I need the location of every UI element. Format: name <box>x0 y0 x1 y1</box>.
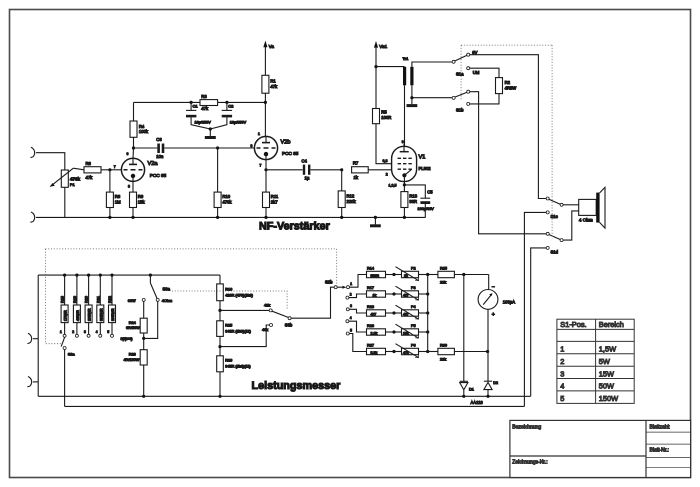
resistor R21 <box>99 274 102 277</box>
svg-text:4R5W: 4R5W <box>505 85 517 90</box>
svg-text:Blattzahl:: Blattzahl: <box>650 425 671 431</box>
svg-text:2k7: 2k7 <box>271 200 278 205</box>
svg-text:1k: 1k <box>354 175 359 180</box>
node grid V2a <box>108 168 111 171</box>
svg-text:V1: V1 <box>419 154 426 160</box>
svg-text:33R: 33R <box>409 199 417 204</box>
svg-text:PCC 85: PCC 85 <box>150 173 167 178</box>
svg-text:346R (520)(1k): 346R (520)(1k) <box>225 329 251 333</box>
svg-text:Va1: Va1 <box>379 44 387 49</box>
resistor R15 <box>428 274 438 276</box>
svg-text:Leistungsmesser: Leistungsmesser <box>252 380 342 392</box>
wire bus P outputs <box>427 275 429 352</box>
resistor R3 <box>200 100 218 106</box>
resistor R14 <box>367 271 386 277</box>
svg-text:C3: C3 <box>156 137 162 142</box>
svg-text:P3: P3 <box>411 286 416 290</box>
wire jack to P1 top <box>36 153 65 170</box>
svg-text:22k: 22k <box>440 357 446 361</box>
input jack J1 top <box>30 147 34 157</box>
svg-text:2k: 2k <box>404 274 408 278</box>
svg-text:2: 2 <box>350 292 352 296</box>
svg-text:S1-Pos.: S1-Pos. <box>560 320 586 329</box>
svg-text:40R|4R: 40R|4R <box>76 310 80 321</box>
contact 5 S2b <box>346 332 349 335</box>
svg-text:4: 4 <box>350 316 352 320</box>
svg-text:R9: R9 <box>138 194 144 199</box>
svg-text:15W: 15W <box>599 369 614 378</box>
svg-text:6,3: 6,3 <box>383 159 388 163</box>
node R10 <box>216 146 219 149</box>
svg-text:5: 5 <box>107 330 109 334</box>
wire S3a 4Ohm to R24 bottom <box>144 301 158 338</box>
trimmer P5 <box>394 331 402 333</box>
svg-text:150W: 150W <box>599 394 618 403</box>
svg-text:2: 2 <box>386 173 388 177</box>
svg-text:UM: UM <box>473 70 480 75</box>
svg-text:1: 1 <box>258 132 260 136</box>
wire R2 bottom to S1b <box>470 94 499 104</box>
svg-text:R2: R2 <box>505 80 511 85</box>
svg-text:R22: R22 <box>108 296 112 303</box>
svg-text:2: 2 <box>72 330 74 334</box>
svg-text:3: 3 <box>560 369 564 378</box>
svg-text:R17: R17 <box>367 286 374 290</box>
trimmer P4 <box>394 312 402 314</box>
svg-text:R1: R1 <box>270 78 276 83</box>
svg-text:Tr1: Tr1 <box>403 56 410 61</box>
resistor R18 <box>63 274 66 277</box>
svg-text:V2b: V2b <box>281 139 291 145</box>
input jack J3 <box>27 333 31 343</box>
capacitor C2 electrolytic <box>225 101 228 104</box>
resistor R10 <box>217 148 219 192</box>
svg-text:R21: R21 <box>96 296 100 303</box>
resistor R24 <box>143 301 145 318</box>
svg-text:R8: R8 <box>115 194 121 199</box>
svg-text:R27: R27 <box>367 344 374 348</box>
svg-text:R26: R26 <box>367 324 374 328</box>
capacitor C5 electrolytic <box>404 185 425 198</box>
svg-text:R13: R13 <box>409 193 417 198</box>
svg-text:R19: R19 <box>73 296 77 303</box>
svg-text:4k7: 4k7 <box>371 312 377 316</box>
resistor R20 <box>87 274 90 277</box>
supply arrow Va1 <box>375 47 377 108</box>
switch S1b <box>452 96 455 99</box>
svg-text:47k: 47k <box>270 84 278 89</box>
resistor R17 <box>367 291 386 297</box>
wire S1c throw to speaker <box>563 204 579 206</box>
svg-text:1: 1 <box>560 345 564 354</box>
diode D2 <box>487 352 489 382</box>
svg-text:16µ/350V: 16µ/350V <box>230 120 247 124</box>
wire S1a 6V to S1c <box>470 55 547 199</box>
svg-text:7: 7 <box>114 165 116 169</box>
tube V2b PCC85 <box>264 102 266 136</box>
switch S1d <box>546 232 549 235</box>
trimmer P2 <box>394 274 402 276</box>
svg-text:10n: 10n <box>156 154 164 159</box>
svg-text:9: 9 <box>251 144 253 148</box>
wire S1d throw to speaker bottom <box>563 211 579 240</box>
svg-text:5: 5 <box>560 394 564 403</box>
table S1-Pos / Bereich <box>557 319 634 403</box>
wire S1a Ua to R2 <box>470 68 499 77</box>
contact 4 S2b <box>346 320 349 323</box>
capacitor C4 <box>266 169 303 171</box>
svg-text:S1d: S1d <box>551 249 559 254</box>
node anode V2a / resistor R4 <box>132 148 135 158</box>
mech link dotted S3 <box>172 291 287 310</box>
svg-text:5W: 5W <box>599 357 610 366</box>
wire wiper to R6 <box>73 168 84 170</box>
svg-text:420R (470)(2k9): 420R (470)(2k9) <box>225 293 253 297</box>
svg-text:Zeichnungs-Nr.:: Zeichnungs-Nr.: <box>512 460 547 466</box>
svg-text:+: + <box>492 312 495 318</box>
svg-text:C4: C4 <box>302 158 308 163</box>
resistor R28 <box>143 338 145 349</box>
capacitor C1 electrolytic <box>190 101 193 104</box>
wire S3b common to S2b <box>291 287 334 318</box>
svg-text:−: − <box>492 284 495 290</box>
diode D1 <box>463 275 465 382</box>
svg-text:S3b: S3b <box>285 322 293 327</box>
svg-text:100k: 100k <box>139 129 149 134</box>
svg-text:S1a: S1a <box>456 72 464 77</box>
svg-text:S2a: S2a <box>68 353 76 357</box>
svg-text:47k: 47k <box>201 106 209 111</box>
wire ground bus top section <box>36 216 426 218</box>
svg-text:1,5W: 1,5W <box>599 345 616 354</box>
svg-text:17R|4R: 17R|4R <box>64 310 68 321</box>
svg-text:5,5k: 5,5k <box>371 351 378 355</box>
svg-text:R7: R7 <box>353 161 359 166</box>
svg-text:P2: P2 <box>411 267 416 271</box>
svg-text:S1c: S1c <box>551 214 558 219</box>
svg-text:4: 4 <box>96 330 98 334</box>
contact 1 S2b <box>347 286 350 289</box>
resistor R8 <box>109 170 111 192</box>
input jack J4 <box>27 376 31 386</box>
svg-text:C2: C2 <box>228 104 234 109</box>
trimmer P6 <box>394 351 402 353</box>
svg-text:R12: R12 <box>347 193 355 198</box>
svg-text:S1b: S1b <box>456 107 464 112</box>
node cathode V2b / R11 <box>264 168 267 171</box>
svg-text:R14: R14 <box>367 267 374 271</box>
svg-text:100R|4R: 100R|4R <box>88 308 92 321</box>
svg-text:22k: 22k <box>440 280 446 284</box>
svg-text:S2b: S2b <box>325 280 333 285</box>
svg-text:R24: R24 <box>129 321 136 325</box>
svg-text:16µ/350V: 16µ/350V <box>195 120 212 124</box>
switch S1a <box>452 60 455 63</box>
svg-text:4k7: 4k7 <box>403 312 409 316</box>
svg-text:R3: R3 <box>201 94 207 99</box>
resistor R27 <box>367 348 386 354</box>
svg-text:47k: 47k <box>403 351 409 355</box>
resistor R26 <box>217 356 224 372</box>
contact 2 S2b <box>346 296 349 299</box>
svg-text:R11: R11 <box>271 194 279 199</box>
svg-text:4R/150W: 4R/150W <box>124 358 140 362</box>
ground symbol under Tr1 <box>407 104 418 107</box>
mech link dotted S1 <box>461 44 552 46</box>
svg-text:10k: 10k <box>403 331 409 335</box>
svg-text:6R/50W: 6R/50W <box>126 326 140 330</box>
wire R16 tap to S3b <box>220 309 269 311</box>
svg-text:100µ/63V: 100µ/63V <box>418 207 435 211</box>
svg-text:S3a: S3a <box>163 286 171 291</box>
svg-text:100R|4R: 100R|4R <box>111 308 115 321</box>
ground jack J2 <box>30 212 34 222</box>
svg-text:7: 7 <box>260 163 262 167</box>
svg-text:P6: P6 <box>411 344 416 348</box>
resistor R9 <box>130 192 137 207</box>
svg-text:Bezeichnung: Bezeichnung <box>512 425 541 431</box>
svg-text:C1: C1 <box>193 104 199 109</box>
svg-text:6: 6 <box>127 152 129 156</box>
transformer Tr1 <box>376 66 405 68</box>
switch S2b <box>334 286 337 289</box>
svg-text:100R: 100R <box>381 115 391 120</box>
resistor R2 <box>496 78 503 94</box>
selector contacts 1-5 <box>63 334 66 337</box>
svg-text:9: 9 <box>402 140 404 144</box>
svg-text:100µA: 100µA <box>503 300 515 305</box>
svg-text:Blatt-Nr.:: Blatt-Nr.: <box>650 447 669 453</box>
resistor R13 <box>403 185 405 192</box>
ground symbol under bus <box>374 216 377 219</box>
title block <box>510 420 691 477</box>
wire S1b to S1d common <box>470 92 547 234</box>
wire supply row y102 <box>134 101 266 103</box>
resistor R25 <box>217 321 224 337</box>
resistor R26b <box>367 329 386 335</box>
svg-text:P5: P5 <box>411 324 416 328</box>
svg-text:4: 4 <box>560 382 564 391</box>
svg-text:R15: R15 <box>440 267 447 271</box>
meter M 100µA <box>488 275 490 290</box>
svg-text:R18: R18 <box>61 296 65 303</box>
svg-text:AA118: AA118 <box>471 400 484 405</box>
svg-text:1k: 1k <box>373 293 377 297</box>
wire S1d nc down to bottom loop <box>531 248 547 396</box>
resistor R22 <box>110 274 113 277</box>
svg-text:R23: R23 <box>367 305 374 309</box>
tube V1 PL802 <box>392 146 417 181</box>
switch S1c <box>546 197 549 200</box>
svg-text:5: 5 <box>350 328 352 332</box>
svg-text:P1: P1 <box>70 182 76 187</box>
svg-text:1: 1 <box>350 282 352 286</box>
svg-text:4 Ohm: 4 Ohm <box>579 218 593 223</box>
svg-text:1µ: 1µ <box>305 175 310 180</box>
wire signal bus y396 <box>38 395 531 397</box>
svg-text:470k: 470k <box>222 200 232 205</box>
resistor R23 <box>367 310 386 316</box>
resistor R1 <box>262 75 269 93</box>
svg-text:47k: 47k <box>86 175 94 180</box>
svg-text:Va: Va <box>269 44 275 49</box>
resistor R5 <box>373 109 380 124</box>
switch S3a <box>149 274 152 277</box>
svg-text:R26: R26 <box>225 359 232 363</box>
wire top bus of bank <box>38 274 220 276</box>
svg-text:PL802: PL802 <box>419 166 432 171</box>
wire R5 to heater V1 <box>376 124 392 164</box>
svg-text:R5: R5 <box>381 110 387 115</box>
svg-text:R25: R25 <box>225 324 232 328</box>
svg-text:4Ohm: 4Ohm <box>162 299 172 303</box>
svg-text:PCC 85: PCC 85 <box>282 151 299 156</box>
svg-text:2,3k: 2,3k <box>371 331 378 335</box>
loudspeaker 4 Ohm <box>579 199 597 215</box>
svg-text:Bereich: Bereich <box>599 320 624 329</box>
resistor R19 <box>75 274 78 277</box>
trimmer P3 <box>394 293 402 295</box>
ground symbol mid <box>209 127 212 130</box>
svg-text:R6: R6 <box>86 161 92 166</box>
node grid V1 / R12 <box>340 168 343 171</box>
svg-text:60W: 60W <box>128 299 136 303</box>
svg-text:1M: 1M <box>115 200 121 205</box>
svg-text:4k7: 4k7 <box>403 293 409 297</box>
svg-text:D1: D1 <box>469 388 474 392</box>
switch S3b <box>269 309 272 312</box>
svg-text:330R|4R: 330R|4R <box>99 308 103 321</box>
svg-text:845R (1k6)(1k): 845R (1k6)(1k) <box>225 364 251 368</box>
wire return bus y406 <box>65 405 525 407</box>
capacitor C3 <box>134 147 158 149</box>
svg-text:R20: R20 <box>85 296 89 303</box>
svg-text:3: 3 <box>350 304 352 308</box>
tube V2a PCC85 <box>121 158 144 181</box>
resistor R30 <box>428 351 438 353</box>
svg-text:2: 2 <box>560 357 564 366</box>
svg-text:50W: 50W <box>599 382 614 391</box>
svg-text:6V: 6V <box>472 50 477 55</box>
node cathode V1 <box>403 183 406 186</box>
wire S1c nc down to bottom loop <box>524 212 546 406</box>
svg-text:R10: R10 <box>222 194 230 199</box>
wire R25 tap to S3b nc <box>220 325 270 347</box>
svg-text:V2a: V2a <box>148 161 159 167</box>
svg-text:220k: 220k <box>347 199 357 204</box>
mech link dotted S2 <box>45 248 336 250</box>
svg-text:15k: 15k <box>138 200 146 205</box>
svg-text:R28: R28 <box>129 353 136 357</box>
svg-text:NF-Verstärker: NF-Verstärker <box>259 220 331 232</box>
svg-text:R30: R30 <box>440 344 447 348</box>
contact 3 S2b <box>346 308 349 311</box>
svg-text:8: 8 <box>128 184 130 188</box>
resistor R7 <box>352 167 369 173</box>
svg-text:550R: 550R <box>371 274 380 278</box>
switch S2a <box>61 337 64 346</box>
wire left vertical feed <box>37 275 39 396</box>
svg-text:1: 1 <box>60 330 62 334</box>
svg-text:C5: C5 <box>427 190 433 195</box>
svg-text:42k: 42k <box>264 304 270 308</box>
svg-text:P4: P4 <box>411 305 416 309</box>
svg-text:3: 3 <box>84 330 86 334</box>
svg-text:D2: D2 <box>493 381 498 385</box>
resistor R6 <box>84 167 101 173</box>
svg-text:R4: R4 <box>139 124 145 129</box>
svg-text:1,3,5: 1,3,5 <box>389 184 397 188</box>
supply arrow Va <box>264 47 266 75</box>
resistor R16 <box>219 275 221 284</box>
svg-text:40k: 40k <box>262 328 268 332</box>
potentiometer P1 <box>61 170 68 187</box>
svg-text:3(3|3+3): 3(3|3+3) <box>121 337 133 341</box>
